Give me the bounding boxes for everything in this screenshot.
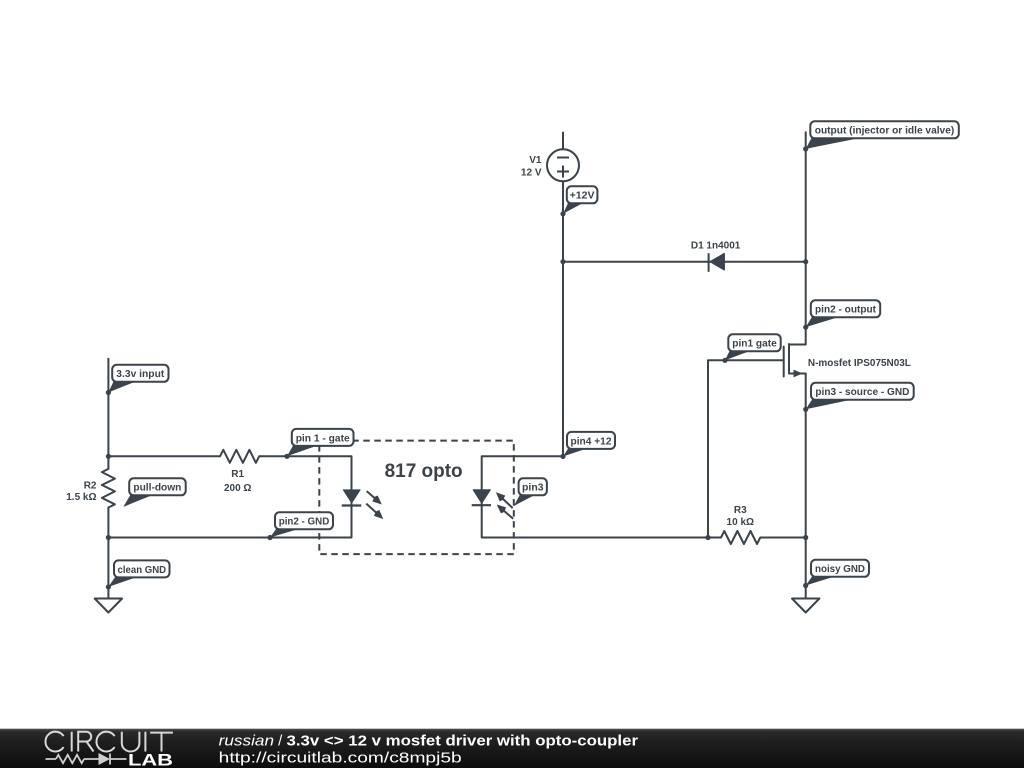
svg-text:pin 1 - gate: pin 1 - gate bbox=[296, 433, 350, 444]
svg-text:D1 1n4001: D1 1n4001 bbox=[691, 241, 741, 252]
svg-text:pull-down: pull-down bbox=[133, 483, 181, 494]
svg-text:pin3 - source - GND: pin3 - source - GND bbox=[815, 387, 909, 398]
svg-text:noisy GND: noisy GND bbox=[815, 564, 865, 575]
svg-text:LAB: LAB bbox=[128, 750, 173, 768]
svg-text:http://circuitlab.com/c8mpj5b: http://circuitlab.com/c8mpj5b bbox=[219, 749, 462, 766]
svg-text:10 kΩ: 10 kΩ bbox=[727, 517, 754, 528]
svg-text:clean GND: clean GND bbox=[118, 565, 167, 576]
svg-text:N-mosfet IPS075N03L: N-mosfet IPS075N03L bbox=[808, 358, 911, 369]
svg-text:1.5 kΩ: 1.5 kΩ bbox=[66, 492, 96, 503]
svg-text:V1: V1 bbox=[529, 155, 542, 166]
svg-text:200 Ω: 200 Ω bbox=[224, 483, 251, 494]
svg-text:russian / 3.3v <> 12 v mosfet: russian / 3.3v <> 12 v mosfet driver wit… bbox=[219, 733, 638, 750]
svg-text:3.3v input: 3.3v input bbox=[116, 369, 165, 380]
svg-text:817 opto: 817 opto bbox=[385, 461, 463, 482]
svg-text:pin4 +12: pin4 +12 bbox=[571, 436, 612, 447]
svg-text:R3: R3 bbox=[734, 505, 747, 516]
svg-text:12 V: 12 V bbox=[521, 168, 542, 179]
svg-text:pin1 gate: pin1 gate bbox=[732, 339, 777, 350]
svg-text:pin3: pin3 bbox=[522, 483, 544, 494]
svg-text:R1: R1 bbox=[231, 469, 244, 480]
svg-text:pin2 - GND: pin2 - GND bbox=[279, 517, 330, 528]
svg-text:R2: R2 bbox=[84, 481, 97, 492]
svg-text:+12V: +12V bbox=[570, 191, 595, 202]
svg-text:output (injector or idle valve: output (injector or idle valve) bbox=[815, 126, 955, 137]
svg-text:pin2 - output: pin2 - output bbox=[815, 305, 877, 316]
